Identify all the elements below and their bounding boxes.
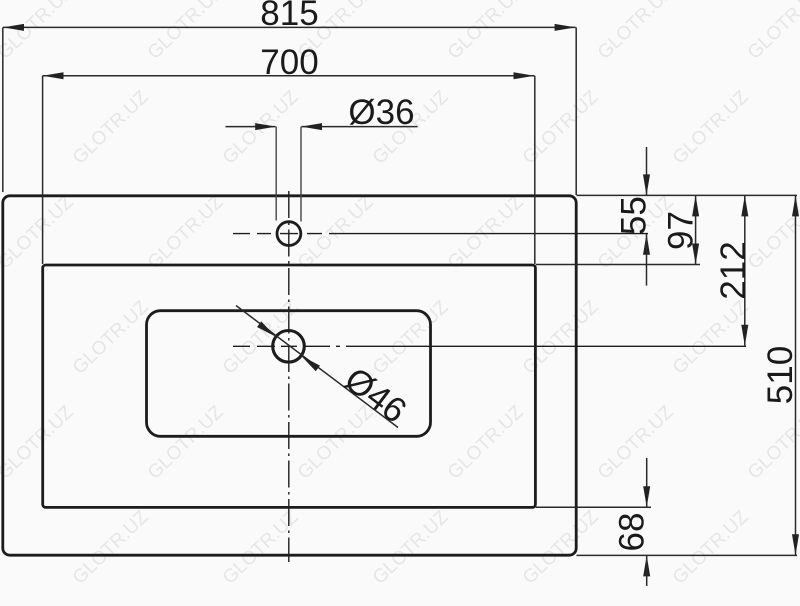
dimension 815 line (3, 26, 576, 28)
700 left extension (42, 76, 44, 264)
815 right extension (575, 27, 577, 195)
svg-text:68: 68 (613, 513, 652, 552)
washbasin inner deck edge (43, 265, 536, 507)
dimension D46 arrow lower (299, 353, 320, 371)
svg-text:97: 97 (662, 211, 701, 250)
washbasin outer outline (3, 196, 576, 555)
svg-text:212: 212 (714, 241, 753, 299)
700 right extension (534, 76, 536, 264)
dimension 55 line (646, 147, 648, 195)
vertical centerline (288, 191, 290, 562)
svg-text:510: 510 (761, 346, 800, 404)
dimension 97 line (695, 195, 697, 264)
bottom edge extension right (577, 554, 798, 556)
basin bowl outline (147, 311, 431, 437)
drain hole circle (273, 331, 305, 363)
inner deck bottom edge extension right (536, 506, 651, 508)
815 left extension (2, 27, 4, 192)
svg-text:55: 55 (615, 196, 654, 235)
dimension 68 line (646, 458, 648, 507)
tap hole horizontal centerline (233, 233, 648, 235)
dimension 510 line (795, 195, 797, 555)
top edge extension right (577, 194, 798, 196)
drain hole horizontal centerline (233, 345, 746, 347)
dimension D46 arrow upper (257, 321, 278, 339)
dimension D36 line left (226, 126, 276, 128)
dimension D36 line right (302, 126, 418, 128)
inner deck top edge extension right (536, 264, 700, 266)
dimension D46 leader line (236, 306, 398, 428)
dimension 700 line (43, 75, 535, 77)
tap hole projection lines (275, 127, 277, 221)
dimension 212 line (744, 195, 746, 345)
tap hole circle (277, 222, 301, 246)
